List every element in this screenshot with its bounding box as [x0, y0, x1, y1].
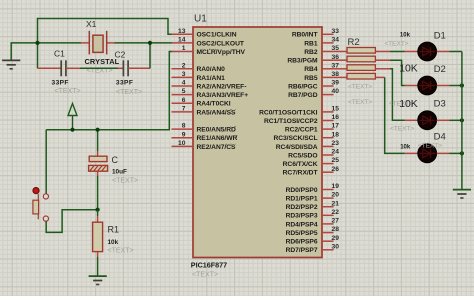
- pin 7 RA5/AN4/SS: [172, 106, 236, 117]
- wire MCLR pin1 to reset rail: [46, 52, 172, 130]
- LED D3: [418, 111, 437, 130]
- pin 37 RB4: [304, 62, 339, 73]
- svg-text:10k: 10k: [400, 145, 411, 151]
- pin 14 OSC2/CLKOUT: [172, 37, 245, 48]
- wire LED D3 right lead: [437, 119, 450, 121]
- svg-text:28: 28: [332, 226, 340, 233]
- svg-text:RD7/PSP7: RD7/PSP7: [286, 247, 318, 254]
- svg-text:16: 16: [332, 114, 340, 121]
- svg-text:RC3/SCK/SCL: RC3/SCK/SCL: [273, 135, 317, 142]
- pin 8 RE0/AN5/RD: [172, 123, 236, 134]
- svg-text:3: 3: [182, 71, 186, 78]
- svg-text:27: 27: [332, 218, 340, 225]
- pin 3 RA1/AN1: [172, 71, 226, 82]
- pin 5 RA3/AN3/VREF+: [172, 88, 249, 99]
- svg-text:RC6/TX/CK: RC6/TX/CK: [283, 161, 318, 168]
- pin 38 RB5: [304, 71, 339, 82]
- node cap C junction: [96, 128, 100, 132]
- capacitor C2: [123, 60, 128, 76]
- svg-text:R1: R1: [108, 224, 120, 234]
- wire LED D2 to rail: [450, 85, 462, 87]
- wire resistor to LED D1: [375, 51, 390, 53]
- wire crystal right lead: [107, 42, 115, 44]
- svg-text:7: 7: [182, 106, 186, 113]
- wire C1 left lead: [38, 67, 62, 69]
- pin 39 RB6/PGC: [288, 80, 339, 91]
- svg-text:OSC2/CLKOUT: OSC2/CLKOUT: [197, 40, 245, 47]
- node rail junction D2: [460, 83, 464, 87]
- svg-text:RB0/INT: RB0/INT: [292, 32, 319, 39]
- wire capacitor C drop: [97, 130, 99, 151]
- pin 19 RD0/PSP0: [286, 183, 340, 194]
- svg-text:X1: X1: [86, 19, 97, 29]
- pin 36 RB3/PGM: [287, 54, 339, 65]
- wire pin37 to resistor: [334, 68, 347, 70]
- wire resistor to LED D4: [375, 76, 384, 78]
- svg-text:15: 15: [332, 106, 340, 113]
- power symbol VCC arrow: [68, 104, 77, 130]
- svg-text:D3: D3: [434, 99, 446, 110]
- pin 18 RC3/SCK/SCL: [273, 131, 339, 142]
- pin 4 RA2/AN2/VREF-: [172, 80, 247, 91]
- pin 30 RD7/PSP7: [286, 243, 340, 254]
- wire LED D2 right lead: [437, 85, 450, 87]
- svg-text:25: 25: [332, 157, 340, 164]
- wire ground spur left: [11, 43, 37, 60]
- svg-text:D4: D4: [434, 132, 446, 143]
- LED D1: [418, 42, 437, 61]
- crystal X1: [89, 31, 106, 55]
- svg-text:C2: C2: [115, 50, 126, 60]
- op-amp U1 body (PIC16F877 IC): [193, 27, 322, 258]
- svg-text:22: 22: [332, 209, 340, 216]
- svg-text:10k: 10k: [108, 239, 119, 246]
- svg-text:<TEXT>: <TEXT>: [108, 248, 134, 255]
- svg-text:RD2/PSP2: RD2/PSP2: [286, 204, 318, 211]
- pin 9 RE1/AN6/WR: [172, 131, 238, 142]
- svg-text:RA2/AN2/VREF-: RA2/AN2/VREF-: [197, 83, 247, 90]
- LED D2: [418, 76, 437, 95]
- node VCC junction: [70, 128, 74, 132]
- svg-text:RB4: RB4: [304, 66, 318, 73]
- svg-text:RB2: RB2: [304, 49, 318, 56]
- svg-text:RC1/T1OSI/CCP2: RC1/T1OSI/CCP2: [264, 118, 318, 125]
- wire cathode rail: [461, 52, 463, 190]
- svg-text:19: 19: [332, 183, 340, 190]
- ground (left): [2, 60, 20, 68]
- svg-text:33PF: 33PF: [116, 79, 133, 86]
- wire LED D3 left lead: [405, 119, 419, 121]
- pin 40 RB7/PGD: [288, 88, 339, 99]
- svg-text:4: 4: [182, 80, 186, 87]
- svg-text:21: 21: [332, 200, 340, 207]
- wire LED D1 to rail: [450, 51, 462, 53]
- pin 17 RC2/CCP1: [285, 123, 339, 134]
- pin 27 RD4/PSP4: [286, 218, 340, 229]
- svg-text:PIC16F877: PIC16F877: [191, 261, 227, 270]
- svg-text:6: 6: [182, 97, 186, 104]
- svg-text:40: 40: [332, 88, 340, 95]
- pin 13 OSC1/CLKIN: [172, 28, 237, 39]
- svg-text:10uF: 10uF: [112, 168, 127, 175]
- resistor R2.4: [347, 73, 375, 79]
- wire C1 branch vertical: [37, 43, 39, 68]
- wire C2 right lead: [128, 67, 150, 69]
- svg-text:<TEXT>: <TEXT>: [348, 99, 372, 106]
- svg-text:5: 5: [182, 88, 186, 95]
- svg-text:RA3/AN3/VREF+: RA3/AN3/VREF+: [197, 92, 249, 99]
- svg-text:RD3/PSP3: RD3/PSP3: [286, 213, 318, 220]
- svg-text:RB5: RB5: [304, 75, 318, 82]
- svg-text:RD1/PSP1: RD1/PSP1: [286, 196, 318, 203]
- wire OSC2 to pin 14: [150, 42, 173, 44]
- svg-text:RB3/PGM: RB3/PGM: [287, 58, 318, 65]
- svg-text:RE2/AN7/CS: RE2/AN7/CS: [197, 144, 236, 151]
- pin 28 RD5/PSP5: [286, 226, 340, 237]
- svg-text:D1: D1: [434, 30, 446, 41]
- svg-text:10k: 10k: [400, 32, 411, 38]
- wire LED D3 to rail: [450, 119, 462, 121]
- wire pin38 to resistor: [334, 76, 347, 78]
- svg-text:U1: U1: [194, 14, 207, 25]
- svg-text:<TEXT>: <TEXT>: [55, 88, 81, 95]
- pin 24 RC5/SDO: [288, 149, 339, 160]
- capacitor C1: [61, 60, 66, 76]
- pin 34 RB1: [304, 37, 339, 48]
- svg-text:RC0/T1OSO/T1CKI: RC0/T1OSO/T1CKI: [259, 109, 318, 116]
- pin 22 RD3/PSP3: [286, 209, 340, 220]
- LED D4: [418, 144, 437, 163]
- pin 15 RC0/T1OSO/T1CKI: [259, 106, 339, 117]
- svg-text:RC5/SDO: RC5/SDO: [288, 152, 317, 159]
- svg-text:RA0/AN0: RA0/AN0: [197, 66, 226, 73]
- node rail junction D3: [460, 118, 464, 122]
- svg-text:RC2/CCP1: RC2/CCP1: [285, 127, 318, 134]
- svg-text:10: 10: [178, 140, 186, 147]
- svg-text:<TEXT>: <TEXT>: [390, 126, 414, 133]
- pin 2 RA0/AN0: [172, 62, 226, 73]
- svg-text:C1: C1: [54, 49, 65, 59]
- svg-text:8: 8: [182, 123, 186, 130]
- wire resistor to LED D3: [375, 68, 390, 70]
- pin 33 RB0/INT: [292, 28, 339, 39]
- pin 26 RC7/RX/DT: [283, 166, 340, 177]
- pin 6 RA4/T0CKI: [172, 97, 231, 108]
- wire R1 top lead: [97, 210, 99, 216]
- svg-text:1: 1: [182, 45, 186, 52]
- svg-text:RA4/T0CKI: RA4/T0CKI: [197, 101, 231, 108]
- svg-text:24: 24: [332, 149, 340, 156]
- svg-text:9: 9: [182, 131, 186, 138]
- ground (bottom): [89, 276, 107, 284]
- wire C1 to C2: [66, 67, 80, 69]
- pin 16 RC1/T1OSI/CCP2: [264, 114, 339, 125]
- svg-text:29: 29: [332, 235, 340, 242]
- resistor R2.3: [347, 65, 375, 71]
- wire LED D4 right lead: [437, 152, 450, 154]
- ground (right): [453, 190, 471, 198]
- wire LED D1 left lead: [405, 51, 419, 53]
- svg-text:C: C: [112, 155, 119, 165]
- svg-text:OSC1/CLKIN: OSC1/CLKIN: [197, 32, 237, 39]
- pin 23 RC4/SDI/SDA: [276, 140, 340, 151]
- pin 21 RD2/PSP2: [286, 200, 340, 211]
- node rail junction D4: [460, 151, 464, 155]
- svg-text:RB7/PGD: RB7/PGD: [288, 92, 318, 99]
- svg-text:RB6/PGC: RB6/PGC: [288, 83, 318, 90]
- svg-text:RC7/RX/DT: RC7/RX/DT: [283, 170, 319, 177]
- svg-text:RD5/PSP5: RD5/PSP5: [286, 230, 318, 237]
- svg-text:<TEXT>: <TEXT>: [418, 142, 442, 149]
- svg-text:2: 2: [182, 62, 186, 69]
- pin 35 RB2: [304, 45, 339, 56]
- svg-text:39: 39: [332, 80, 340, 87]
- svg-text:<TEXT>: <TEXT>: [192, 271, 218, 278]
- svg-text:RC4/SDI/SDA: RC4/SDI/SDA: [276, 144, 318, 151]
- wire LED D2 left lead: [405, 85, 419, 87]
- wire crystal left lead: [38, 42, 82, 44]
- svg-text:MCLR/Vpp/THV: MCLR/Vpp/THV: [197, 49, 246, 56]
- svg-text:14: 14: [178, 37, 186, 44]
- svg-text:RD4/PSP4: RD4/PSP4: [286, 221, 318, 228]
- svg-text:<TEXT>: <TEXT>: [384, 40, 408, 47]
- svg-text:RA5/AN4/SS: RA5/AN4/SS: [197, 109, 236, 116]
- svg-text:RE1/AN6/WR: RE1/AN6/WR: [197, 135, 238, 142]
- svg-text:10K: 10K: [399, 64, 418, 75]
- svg-text:RB1: RB1: [304, 40, 318, 47]
- svg-text:20: 20: [332, 192, 340, 199]
- wire LED D1 right lead: [437, 51, 450, 53]
- wire C bottom to junction: [97, 171, 99, 176]
- svg-text:17: 17: [332, 123, 340, 130]
- pin 1 MCLR/Vpp/THV: [172, 45, 246, 56]
- svg-text:18: 18: [332, 131, 340, 138]
- pin 20 RD1/PSP1: [286, 192, 340, 203]
- svg-text:D2: D2: [434, 64, 446, 75]
- svg-text:RD6/PSP6: RD6/PSP6: [286, 239, 318, 246]
- wire top rail OSC1 net: [38, 19, 173, 43]
- svg-text:RD0/PSP0: RD0/PSP0: [286, 187, 318, 194]
- resistor R2.1: [347, 48, 375, 54]
- svg-text:RE0/AN5/RD: RE0/AN5/RD: [197, 127, 236, 134]
- svg-text:<TEXT>: <TEXT>: [112, 177, 138, 184]
- wire pin35 to resistor: [334, 51, 347, 53]
- svg-text:RA1/AN1: RA1/AN1: [197, 75, 226, 82]
- resistor R1: [93, 222, 103, 251]
- resistor R2.2: [347, 56, 375, 62]
- node crystal right junction: [148, 41, 152, 45]
- svg-text:34: 34: [332, 37, 340, 44]
- wire LED D4 left lead: [405, 152, 419, 154]
- svg-text:30: 30: [332, 243, 340, 250]
- svg-text:33PF: 33PF: [52, 79, 69, 86]
- capacitor C (10uF polarized): [89, 156, 108, 171]
- node R1 top junction: [96, 208, 100, 212]
- svg-text:<TEXT>: <TEXT>: [348, 84, 372, 91]
- pin 10 RE2/AN7/CS: [172, 140, 236, 151]
- svg-text:23: 23: [332, 140, 340, 147]
- svg-text:26: 26: [332, 166, 340, 173]
- pin 29 RD6/PSP6: [286, 235, 340, 246]
- pin 25 RC6/TX/CK: [283, 157, 340, 168]
- svg-text:R2: R2: [348, 37, 360, 48]
- wire R1 bottom lead: [97, 252, 99, 257]
- svg-text:10K: 10K: [399, 99, 418, 110]
- node crystal left junction: [35, 41, 39, 45]
- button (push switch): [33, 188, 49, 222]
- svg-text:<TEXT>: <TEXT>: [116, 89, 142, 96]
- wire resistor to LED D2: [375, 59, 390, 61]
- wire button bottom zigzag to R1 node: [46, 210, 97, 233]
- wire button top drop: [45, 130, 47, 194]
- wire pin36 to resistor: [334, 59, 347, 61]
- svg-text:33: 33: [332, 28, 340, 35]
- wire LED D4 to rail: [450, 152, 462, 154]
- svg-text:13: 13: [178, 28, 186, 35]
- wire C2 to crystal right junction: [149, 43, 151, 68]
